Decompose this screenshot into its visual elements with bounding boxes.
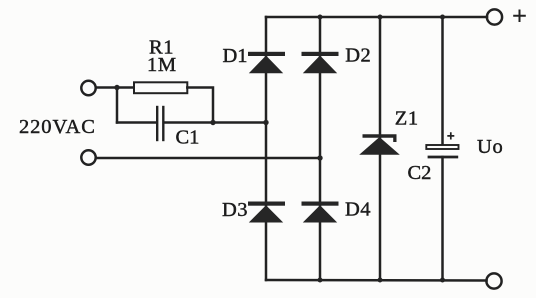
top rail wire bbox=[266, 16, 487, 19]
terminal T4 (output minus) bbox=[486, 273, 501, 288]
plus sign at C2 bbox=[447, 132, 454, 139]
wire to C1 left plate bbox=[117, 121, 156, 124]
capacitor C1 left plate bbox=[156, 107, 158, 140]
svg-text:C2: C2 bbox=[408, 162, 432, 184]
wire left bridge column bbox=[265, 17, 268, 280]
wire C2 column top bbox=[441, 17, 444, 145]
svg-text:D3: D3 bbox=[222, 199, 248, 221]
svg-text:D4: D4 bbox=[345, 199, 371, 221]
bottom rail wire bbox=[266, 279, 487, 282]
capacitor C2 bottom plate bbox=[428, 156, 459, 159]
wire T1 to node A bbox=[96, 86, 117, 89]
wire node A down to C1 bbox=[116, 88, 119, 123]
node C junction dot bbox=[263, 120, 268, 125]
terminal T3 (output plus) bbox=[487, 9, 502, 24]
svg-text:D1: D1 bbox=[223, 45, 248, 67]
wire C2 column bottom bbox=[441, 157, 444, 280]
svg-text:1M: 1M bbox=[147, 54, 177, 76]
svg-text:Z1: Z1 bbox=[395, 108, 419, 130]
diode D3 bbox=[248, 202, 285, 223]
diode D1 bbox=[248, 52, 285, 73]
diode D2 bbox=[302, 52, 339, 73]
svg-text:D2: D2 bbox=[345, 45, 371, 67]
wire C1 right plate to node C bbox=[165, 121, 266, 124]
wire node A to R1 bbox=[117, 86, 134, 89]
junction dot top rail at Z1 column bbox=[378, 15, 383, 20]
diode D4 bbox=[302, 202, 339, 223]
wire R1 to corner down to node B bbox=[187, 88, 213, 123]
svg-text:Uo: Uo bbox=[477, 136, 503, 158]
svg-text:C1: C1 bbox=[176, 127, 200, 149]
capacitor C2 top plate bbox=[426, 145, 458, 149]
capacitor C1 right plate bbox=[162, 107, 164, 140]
terminal T1 (AC input top-left) bbox=[81, 81, 95, 95]
junction dot top rail at D2 column bbox=[318, 15, 323, 20]
wire T2 to node D bbox=[96, 157, 320, 160]
junction dot bottom rail at C2 column bbox=[440, 278, 445, 283]
terminal T2 (AC input bottom-left) bbox=[81, 150, 95, 164]
junction dot bottom rail at D4 column bbox=[318, 278, 323, 283]
junction dot top rail at C2 column bbox=[440, 15, 445, 20]
zener diode Z1 bbox=[359, 134, 400, 155]
plus sign at output terminal bbox=[513, 10, 526, 23]
resistor R1 body bbox=[134, 82, 187, 93]
junction dot bottom rail at Z1 column bbox=[378, 278, 383, 283]
node D junction dot bbox=[317, 155, 322, 160]
node A junction dot bbox=[114, 85, 119, 90]
wire right bridge column bbox=[319, 17, 322, 280]
node B junction dot bbox=[210, 120, 215, 125]
svg-text:220VAC: 220VAC bbox=[19, 116, 96, 138]
wire Z1 column bbox=[379, 17, 382, 280]
